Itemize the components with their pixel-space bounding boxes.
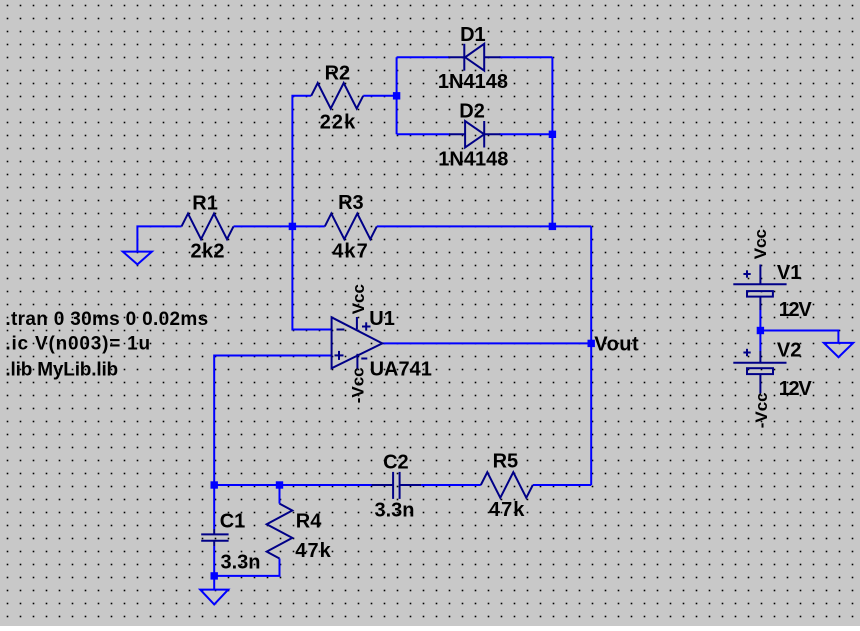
svg-text:R4: R4	[296, 510, 322, 532]
wire D1 right	[500, 56, 553, 58]
svg-text:D1: D1	[460, 24, 486, 46]
junction R2/diode loop	[393, 92, 400, 99]
wire R2 right lead to diode loop	[363, 95, 396, 97]
svg-text:Vcc: Vcc	[751, 229, 770, 259]
svg-text:3.3n: 3.3n	[375, 500, 415, 522]
wire D1 left	[397, 56, 449, 58]
wire inverting input net (R2 left / R1-R3 junction / op-amp minus)	[292, 96, 331, 330]
svg-text:1N4148: 1N4148	[438, 148, 508, 170]
wire Vout vertical	[590, 226, 592, 485]
svg-text:22k: 22k	[320, 112, 356, 134]
svg-text:R1: R1	[192, 192, 218, 214]
resistor R3	[325, 192, 377, 263]
svg-text:R3: R3	[338, 192, 364, 214]
svg-text:.lib MyLib.lib: .lib MyLib.lib	[5, 359, 118, 380]
wire R4 bottom link	[214, 559, 279, 576]
svg-text:U1: U1	[369, 308, 395, 330]
voltage source V2	[733, 339, 812, 428]
svg-text:V1: V1	[777, 262, 801, 284]
svg-text:12V: 12V	[779, 299, 813, 321]
wire R5 to corner	[533, 484, 591, 486]
svg-text:-Vcc: -Vcc	[348, 367, 367, 403]
junction R1/R3	[289, 223, 296, 230]
junction C1 bottom	[211, 572, 218, 579]
ground (supplies)	[824, 343, 853, 357]
junction R4 top	[276, 481, 283, 488]
diode D2	[438, 100, 508, 170]
svg-text:R5: R5	[493, 451, 519, 473]
ground (C1)	[200, 590, 228, 605]
voltage source V1	[733, 229, 812, 321]
wire bottom row left to C2	[214, 484, 372, 486]
junction Vout	[588, 340, 595, 347]
wire C2 to R5	[421, 484, 481, 486]
svg-text:47k: 47k	[489, 499, 525, 521]
wire V1-V2 midpoint net to ground	[759, 310, 761, 351]
wire D2 left	[397, 133, 450, 135]
wire R4 top lead	[279, 485, 281, 504]
junction V1/V2	[757, 327, 764, 334]
svg-text:.tran 0 30ms 0 0.02ms: .tran 0 30ms 0 0.02ms	[5, 309, 208, 330]
wire R1 to R3	[234, 225, 325, 227]
wire noninverting input net	[214, 356, 331, 486]
resistor R2	[311, 62, 363, 133]
svg-text:.ic V(n003)= 1u: .ic V(n003)= 1u	[5, 334, 150, 355]
svg-text:Vout: Vout	[594, 334, 639, 356]
wire C1 ground stub	[213, 576, 215, 590]
svg-text:2k2: 2k2	[191, 240, 225, 262]
svg-text:D2: D2	[459, 100, 485, 122]
resistor R4	[267, 504, 332, 562]
capacitor C1	[201, 510, 260, 573]
resistor R1	[182, 192, 234, 262]
wire C1 top lead	[213, 485, 215, 529]
svg-text:1N4148: 1N4148	[438, 71, 508, 93]
wire op-amp output to Vout	[382, 342, 591, 344]
ground (R1)	[123, 252, 152, 265]
capacitor C2	[372, 451, 422, 521]
svg-text:V2: V2	[777, 339, 801, 361]
junction C1 top	[211, 481, 218, 488]
svg-text:-Vcc: -Vcc	[752, 392, 771, 428]
wire diode loop right vertical down to R3 row	[551, 57, 553, 226]
svg-text:3.3n: 3.3n	[221, 551, 261, 573]
svg-text:C2: C2	[383, 451, 409, 473]
resistor R5	[481, 451, 533, 522]
svg-text:12V: 12V	[779, 378, 813, 400]
op-amp U1	[332, 284, 432, 403]
svg-text:C1: C1	[220, 510, 246, 532]
svg-text:R2: R2	[325, 62, 351, 84]
wire supply ground link	[760, 331, 838, 343]
diode D1	[438, 24, 508, 93]
junction D2 right	[549, 131, 556, 138]
svg-text:4k7: 4k7	[332, 241, 368, 263]
wire D2 right	[500, 133, 553, 135]
junction R3/diode loop	[549, 223, 556, 230]
wire C1 bottom lead	[213, 546, 215, 576]
wire diode loop left vertical	[396, 57, 398, 134]
wire R1 ground stub	[137, 226, 181, 251]
wire R3 to Vout vertical	[377, 225, 591, 227]
svg-text:47k: 47k	[295, 540, 331, 562]
svg-text:Vcc: Vcc	[349, 284, 368, 314]
svg-text:UA741: UA741	[370, 358, 432, 380]
